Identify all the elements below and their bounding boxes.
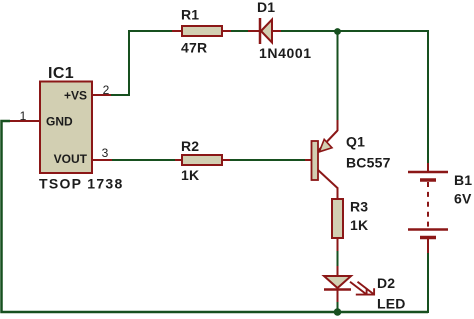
transistor Q1 BC557 [305,120,338,200]
svg-text:D2: D2 [377,275,395,291]
label R3 [350,199,368,215]
wire: R2 to Q1 base [229,159,306,161]
pin number 3 [102,146,109,160]
svg-text:3: 3 [102,146,109,160]
pin 3 stub of IC1 [92,159,112,161]
battery B1 [408,163,448,253]
svg-text:IC1: IC1 [48,65,74,82]
wire: +VS pin2 to top rail [110,31,172,95]
svg-text:D1: D1 [257,0,275,15]
label BC557 [346,155,391,171]
wire: R3 to D2 [337,250,339,267]
svg-text:R1: R1 [181,7,199,23]
svg-text:1K: 1K [350,217,368,233]
label B1 [454,172,472,188]
wire: bottom rail and left rail up to GND pin [2,121,429,312]
pin 1 stub of IC1 [10,120,40,122]
label 1K [181,167,199,183]
wire: top rail junction down to Q1 emitter [337,31,339,121]
svg-text:1K: 1K [181,167,199,183]
label D2 [377,275,395,291]
label 47R [181,40,207,56]
svg-text:2: 2 [103,83,110,97]
pin name GND [46,115,73,129]
svg-text:R2: R2 [181,138,199,154]
svg-text:47R: 47R [181,40,207,56]
wire: D1 to right rail and down to battery [281,31,428,163]
svg-text:1N4001: 1N4001 [259,45,312,61]
pin 2 stub of IC1 [92,94,111,96]
node: junction top rail / Q1 emitter [334,28,341,35]
svg-text:B1: B1 [454,172,472,188]
svg-text:GND: GND [46,115,73,129]
label R1 [181,7,199,23]
pin name +VS [64,89,87,103]
svg-text:LED: LED [377,296,406,312]
svg-text:6V: 6V [454,191,472,207]
svg-text:Q1: Q1 [346,134,365,150]
label IC1 [48,65,74,82]
node: junction bottom rail / D2 [334,308,342,316]
pin name VOUT [54,152,88,166]
diode D1 1N4001 [248,18,281,44]
label 6V [454,191,472,207]
pin number 2 [103,83,110,97]
resistor R3 [332,199,343,251]
svg-text:+VS: +VS [64,89,87,103]
label 1N4001 [259,45,312,61]
resistor R2 [175,155,230,165]
svg-text:VOUT: VOUT [54,152,88,166]
label LED [377,296,406,312]
LED D2 [324,266,374,302]
svg-text:TSOP 1738: TSOP 1738 [39,176,124,192]
label 1K (R3) [350,217,368,233]
svg-text:1: 1 [20,109,27,123]
wire: R1 to D1 segment [230,30,249,32]
pin number 1 [20,109,27,123]
label TSOP 1738 [39,176,124,192]
label D1 [257,0,275,15]
wire: battery bottom to bottom rail [427,252,429,313]
wire: D2 cathode to bottom rail [337,301,339,313]
wire: VOUT to R2 [111,159,176,161]
svg-text:BC557: BC557 [346,155,391,171]
svg-text:R3: R3 [350,199,368,215]
IC IC1 TSOP 1738 [40,82,92,174]
label R2 [181,138,199,154]
label Q1 [346,134,365,150]
resistor R1 [172,26,231,36]
